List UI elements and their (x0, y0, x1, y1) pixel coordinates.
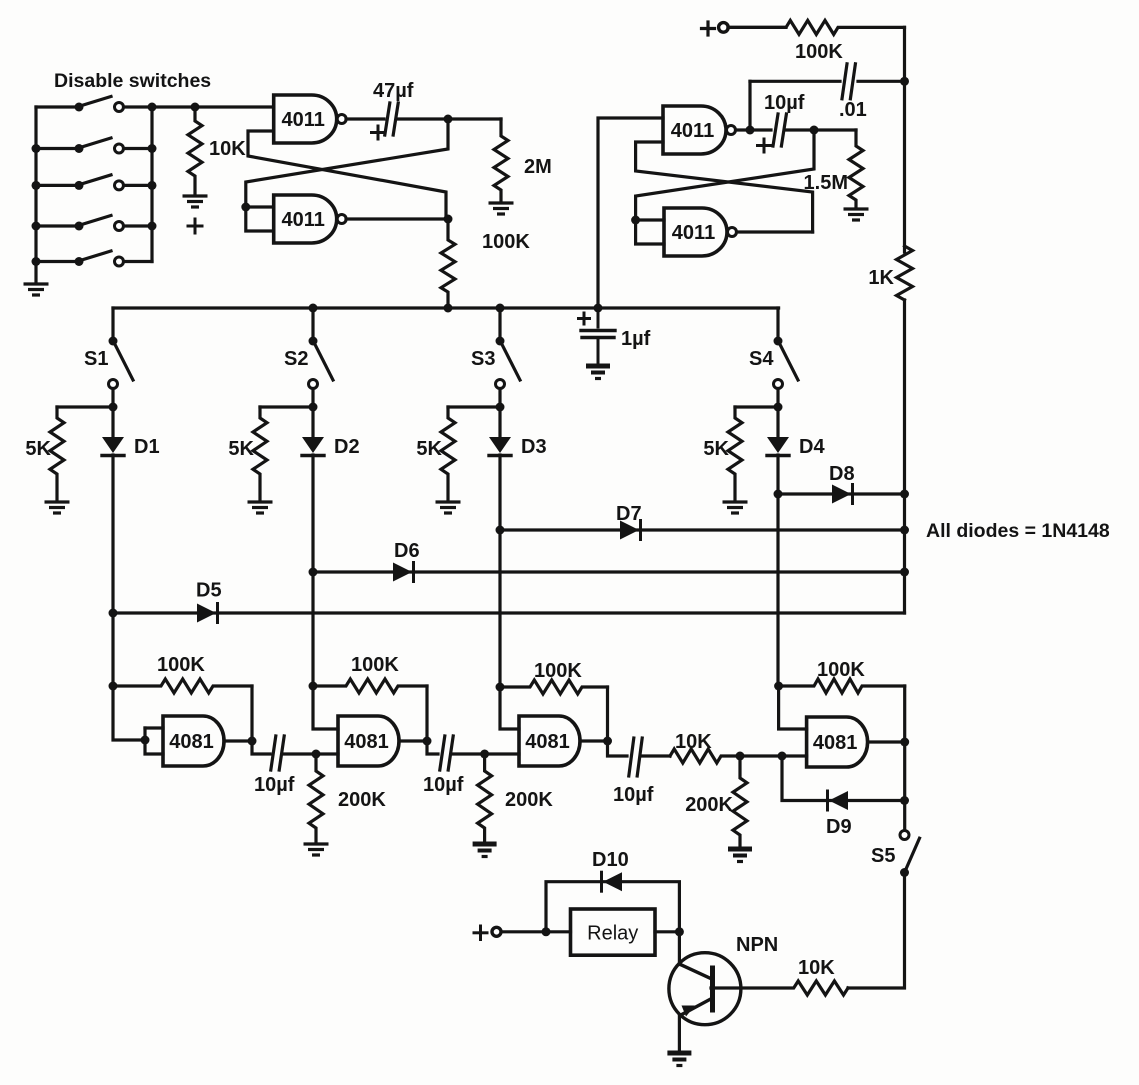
resistor 5K of S2 (228, 407, 267, 501)
svg-text:100K: 100K (795, 41, 843, 63)
ground below 5K of S2 (248, 502, 273, 513)
wire S4 corner into gate4 (779, 686, 807, 729)
resistor 100K (latch to bus) (441, 219, 530, 308)
wire right rail of disable switches (150, 107, 153, 262)
wire cap1 to junction (283, 752, 316, 755)
wire cap1 node to gate2 (316, 752, 338, 755)
wire relay right (655, 930, 679, 933)
diode D6 (393, 563, 414, 582)
svg-text:D1: D1 (134, 436, 160, 458)
junction bus at latch 100K (444, 304, 453, 313)
junction relay right node (675, 927, 684, 936)
svg-text:S2: S2 (284, 348, 308, 370)
resistor 5K of S4 (703, 407, 742, 501)
svg-text:4081: 4081 (344, 731, 389, 753)
resistor 1K (rail) (868, 246, 912, 300)
capacitor 10uf (osc) (773, 114, 786, 146)
svg-text:D8: D8 (829, 463, 855, 485)
junction bus at S2 (309, 304, 318, 313)
switch S4 arm (780, 344, 799, 381)
junction gate2 100K tap (309, 682, 318, 691)
wire S3 column to gate3 tap (498, 530, 501, 687)
label D3 (521, 436, 547, 458)
junction bus at S3 (496, 304, 505, 313)
junction left rail row 5 (32, 257, 41, 266)
junction D7 at rail (900, 526, 909, 535)
wire collector (678, 932, 681, 965)
junction left rail row 4 (32, 222, 41, 231)
wire terminal to relay (501, 930, 546, 933)
disable switch 2 (36, 138, 152, 153)
ground below 1.5M (844, 209, 869, 220)
resistor 200K #1 (309, 754, 386, 842)
label S5 (871, 845, 895, 867)
junction U2 output node (444, 215, 453, 224)
wire gate1 output (224, 739, 252, 742)
label D7 (616, 503, 642, 525)
wire cross-couple U4out to U3in (636, 142, 813, 232)
svg-text:4011: 4011 (671, 120, 714, 142)
ground below 200K #3 (728, 849, 752, 862)
svg-text:200K: 200K (505, 789, 553, 811)
wire D9 branch (782, 756, 905, 801)
wire cap to junction (397, 117, 448, 120)
capacitor 47uf (385, 103, 398, 135)
wire gate2 out drop (427, 741, 438, 754)
resistor 200K #2 (478, 754, 554, 842)
svg-text:10µf: 10µf (423, 774, 464, 796)
nand gate U4 4011 bottom-right (664, 208, 737, 256)
and gate 4081 #3 (519, 716, 580, 766)
resistor 5K of S3 (416, 407, 455, 501)
resistor 100K (fb2) (313, 654, 427, 693)
label 10uf osc (764, 92, 805, 114)
wire cap2 node to gate3 (485, 752, 519, 755)
switch S1 pivot dot (109, 337, 118, 346)
wire U4 output (737, 230, 813, 233)
switch S5 contact circle (900, 831, 909, 840)
wire top right corner down rail (903, 27, 906, 252)
diode D1 (102, 437, 124, 456)
svg-text:4081: 4081 (169, 731, 214, 753)
svg-text:S4: S4 (749, 348, 774, 370)
junction D6 at S2 (309, 568, 318, 577)
svg-text:1K: 1K (868, 267, 894, 289)
switch S2 contact circle (309, 380, 318, 389)
wire cross-couple U1out to U2in (246, 119, 448, 207)
label D4 (799, 436, 825, 458)
ground below 2M (489, 203, 514, 214)
label D6 (394, 540, 420, 562)
resistor 100K (supply) (728, 20, 905, 63)
diode D7 (620, 521, 641, 540)
svg-text:D3: D3 (521, 436, 547, 458)
svg-text:5K: 5K (25, 438, 51, 460)
junction relay left node (542, 927, 551, 936)
junction left rail row 3 (32, 181, 41, 190)
resistor 100K (fb1) (113, 654, 252, 693)
wire U3 output (736, 128, 772, 131)
transistor NPN Q1 (669, 953, 741, 1025)
wire S1 column to D5 row (111, 455, 114, 613)
wire cross-couple U2out to U1in (248, 131, 446, 219)
svg-text:47µf: 47µf (373, 80, 414, 102)
junction right rail row 3 (148, 181, 157, 190)
svg-text:100K: 100K (534, 660, 582, 682)
ground below disable switches (24, 284, 49, 295)
and gate 4081 #2 (338, 716, 399, 766)
junction left rail row 2 (32, 144, 41, 153)
junction gate3 output node (603, 737, 612, 746)
wire terminal to 100K (728, 26, 786, 29)
wire U2 input bracket (246, 207, 274, 231)
switch S4 contact circle (774, 380, 783, 389)
wire U2 output (346, 217, 448, 220)
junction U1 output node (444, 115, 453, 124)
terminal circle top right (719, 23, 729, 33)
ground below 200K #2 (473, 844, 497, 857)
switch S3 arm (502, 344, 521, 381)
svg-text:.01: .01 (839, 99, 867, 121)
terminal circle relay supply (492, 927, 501, 936)
junction U2 input tie (241, 203, 250, 212)
svg-text:S1: S1 (84, 348, 108, 370)
svg-text:5K: 5K (228, 438, 254, 460)
label all diodes (926, 520, 1110, 542)
junction gate1 input tie (141, 736, 150, 745)
resistor 10K (base) (711, 957, 848, 995)
wire S5 down and left (848, 873, 905, 989)
wire 200K node to D9 node (740, 754, 782, 757)
wire S2 column to gate2 tap (311, 572, 314, 686)
relay box (571, 909, 656, 955)
wire S4 below contact (776, 389, 779, 439)
capacitor 1uf (581, 308, 615, 364)
label D1 (134, 436, 160, 458)
wire gate3 output (580, 739, 608, 742)
wire D10 loop (546, 882, 679, 932)
junction right rail row 4 (148, 222, 157, 231)
label 47uf (373, 80, 414, 102)
svg-text:200K: 200K (338, 789, 386, 811)
diode D4 (767, 437, 789, 456)
label S2 (284, 348, 308, 370)
junction cap1 200K node (312, 750, 321, 759)
switch S2 arm (315, 344, 334, 381)
svg-text:10K: 10K (209, 138, 246, 160)
junction S2 5K tap (309, 403, 318, 412)
junction rail at .01 cap (900, 77, 909, 86)
svg-text:4081: 4081 (813, 732, 858, 754)
label D8 (829, 463, 855, 485)
switch S1 contact circle (109, 380, 118, 389)
label S1 (84, 348, 108, 370)
svg-text:S5: S5 (871, 845, 895, 867)
junction 10K 200K node (736, 752, 745, 761)
resistor 2M (494, 119, 552, 201)
wire left rail of disable switches (34, 107, 37, 282)
resistor 100K (fb4) (779, 659, 905, 693)
junction U4 input tie (631, 216, 640, 225)
wire .01 cap row (750, 80, 905, 83)
switch S4 pivot dot (774, 337, 783, 346)
wire S2 column top (311, 308, 314, 341)
wire fb1 corner down (250, 686, 253, 741)
wire gate3 out drop (608, 741, 628, 756)
svg-text:10µf: 10µf (764, 92, 805, 114)
junction right rail row 1 (148, 103, 157, 112)
wire S3 to 5K (448, 405, 500, 408)
svg-text:10µf: 10µf (613, 784, 654, 806)
wire U1 output (346, 117, 384, 120)
wire gate2 output (399, 739, 427, 742)
wire switches to gate U1 input (152, 105, 274, 108)
diode D5 (197, 604, 218, 623)
wire S3 below contact (498, 389, 501, 439)
resistor 10K (pull-down) (188, 107, 246, 194)
label D9 (826, 816, 852, 838)
wire fb2 corner down (425, 686, 428, 741)
svg-text:10K: 10K (798, 957, 835, 979)
wire S3 corner into gate3 (500, 687, 519, 729)
resistor 100K (fb3) (500, 660, 608, 694)
junction D7 at S3 (496, 526, 505, 535)
svg-text:All diodes = 1N4148: All diodes = 1N4148 (926, 520, 1110, 542)
disable switch 1 (36, 97, 152, 112)
nand gate U1 4011 top-left (274, 95, 347, 143)
diode D9 (828, 791, 849, 810)
junction gate3 100K tap (496, 683, 505, 692)
label + of 10uf osc (758, 139, 771, 152)
wire D5 row (113, 611, 905, 614)
wire S4 to 5K (735, 405, 778, 408)
ground below NPN (667, 1053, 691, 1066)
svg-text:D9: D9 (826, 816, 852, 838)
wire D9 node to gate4 (782, 754, 807, 757)
diode D10 (602, 872, 623, 891)
wire gate4 output (868, 740, 905, 743)
label S4 (749, 348, 774, 370)
wire S1 column top (111, 308, 114, 341)
label NPN (736, 934, 778, 956)
svg-text:1µf: 1µf (621, 328, 651, 350)
wire S2 column to D6 row (311, 455, 314, 572)
wire D6 row (313, 570, 905, 573)
switch S5 pivot dot (900, 868, 909, 877)
ground below 1uf (586, 366, 610, 379)
wire S4 column to D8 row (776, 455, 779, 494)
ground below 10K (183, 196, 208, 207)
nand gate U2 4011 bottom-left (274, 195, 347, 243)
svg-text:100K: 100K (482, 231, 530, 253)
label + supply top right (702, 22, 715, 35)
junction osc node (810, 126, 819, 135)
wire .01 to U3 output node (748, 81, 751, 129)
junction D9 at rail (900, 796, 909, 805)
switch S3 pivot dot (496, 337, 505, 346)
wire cap3 to 10K (642, 754, 670, 757)
disable switch 4 (36, 216, 152, 231)
svg-text:D6: D6 (394, 540, 420, 562)
capacitor 10uf #1 (271, 736, 284, 770)
wire S1 column to gate1 (113, 613, 145, 740)
wire fb3 corner down (606, 687, 609, 741)
ground below 5K of S4 (723, 502, 748, 513)
label + of 1uf (579, 313, 590, 324)
junction U3 output node at cap tap (746, 126, 755, 135)
ground below 5K of S1 (45, 502, 70, 513)
wire S2 below contact (311, 389, 314, 439)
and gate 4081 #4 (807, 717, 868, 767)
junction D8 at rail (900, 490, 909, 499)
diode D2 (302, 437, 324, 456)
wire D7 row (500, 528, 905, 531)
wire S2 corner into gate2 (313, 686, 338, 729)
wire cap to junction (785, 128, 814, 131)
switch S3 contact circle (496, 380, 505, 389)
wire S3 column to D7 row (498, 455, 501, 530)
switch S5 arm (906, 838, 920, 869)
label D5 (196, 580, 222, 602)
label 10uf #2 (423, 774, 464, 796)
wire S1 below contact (111, 389, 114, 439)
wire S4 column top (776, 308, 779, 341)
junction gate1 100K tap (109, 682, 118, 691)
label 1uf (621, 328, 651, 350)
svg-text:4011: 4011 (672, 222, 715, 244)
wire gate1 input bracket (145, 728, 163, 754)
wire junction to 2M (448, 117, 501, 120)
junction right rail row 2 (148, 144, 157, 153)
wire cross-couple U3out to U4in (636, 130, 814, 220)
switch S2 pivot dot (309, 337, 318, 346)
label D2 (334, 436, 360, 458)
svg-text:2M: 2M (524, 156, 552, 178)
svg-text:Relay: Relay (587, 923, 638, 945)
svg-text:5K: 5K (416, 438, 442, 460)
label + relay supply (474, 926, 487, 940)
svg-text:D4: D4 (799, 436, 825, 458)
capacitor 10uf #3 (629, 738, 642, 776)
svg-text:4081: 4081 (525, 731, 570, 753)
svg-text:D7: D7 (616, 503, 642, 525)
wire S1 to 5K (57, 405, 113, 408)
junction D5 at S1 (109, 609, 118, 618)
svg-text:10µf: 10µf (254, 774, 295, 796)
switch S1 arm (115, 344, 134, 381)
wire bus A horizontal (113, 306, 779, 309)
diode D8 (832, 485, 853, 504)
svg-text:NPN: NPN (736, 934, 778, 956)
svg-text:100K: 100K (817, 659, 865, 681)
resistor 5K of S1 (25, 407, 64, 501)
wire fb4 corner down rail (903, 686, 906, 831)
svg-text:4011: 4011 (282, 109, 325, 131)
junction D6 at rail (900, 568, 909, 577)
label "Disable switches" (54, 70, 211, 92)
junction gate2 output node (423, 737, 432, 746)
wire emitter down (678, 1015, 681, 1051)
svg-text:200K: 200K (685, 794, 733, 816)
junction D9 branch node (778, 752, 787, 761)
junction gate4 output node (900, 738, 909, 747)
wire S3 column top (498, 308, 501, 341)
label 10uf #1 (254, 774, 295, 796)
junction 10K tap (191, 103, 200, 112)
svg-text:100K: 100K (157, 654, 205, 676)
diode D3 (489, 437, 511, 456)
svg-text:Disable switches: Disable switches (54, 70, 211, 92)
resistor 1.5M (804, 130, 863, 208)
junction D8 at S4 (774, 490, 783, 499)
nand gate U3 4011 top-right (663, 106, 736, 154)
svg-text:10K: 10K (675, 731, 712, 753)
junction cap2 200K node (480, 750, 489, 759)
wire relay left (546, 930, 571, 933)
junction bus at 1uf (594, 304, 603, 313)
wire U4 input bracket (636, 220, 664, 244)
label D10 (592, 849, 629, 871)
disable switch 3 (36, 175, 152, 190)
svg-text:4011: 4011 (282, 209, 325, 231)
and gate 4081 #1 (163, 716, 224, 766)
junction S4 5K tap (774, 403, 783, 412)
wire rail 1K to D5 row (903, 300, 906, 613)
junction S3 5K tap (496, 403, 505, 412)
label 10uf #3 (613, 784, 654, 806)
svg-text:D2: D2 (334, 436, 360, 458)
capacitor .01 (842, 64, 855, 99)
ground below 200K #1 (304, 844, 329, 855)
wire junction to 1.5M (814, 128, 856, 131)
wire D8 row (778, 492, 905, 495)
resistor 200K #3 (685, 756, 747, 847)
wire U3 input from bus (598, 118, 663, 306)
wire S2 to 5K (260, 405, 313, 408)
junction S1 5K tap (109, 403, 118, 412)
svg-text:5K: 5K (703, 438, 729, 460)
wire gate1 out drop (252, 741, 270, 754)
label S3 (471, 348, 495, 370)
resistor 10K (mid) (670, 731, 740, 763)
junction gate4 100K tap (774, 682, 783, 691)
label + below 10K ground (188, 219, 202, 233)
svg-text:D5: D5 (196, 580, 222, 602)
wire S4 column D8 to D7 row (776, 494, 779, 686)
junction gate1 output node (248, 737, 257, 746)
capacitor 10uf #2 (440, 736, 453, 770)
label + of 47uf (372, 126, 385, 139)
svg-text:S3: S3 (471, 348, 495, 370)
ground below 5K of S3 (436, 502, 461, 513)
svg-text:D10: D10 (592, 849, 629, 871)
svg-text:100K: 100K (351, 654, 399, 676)
wire cap2 to junction (452, 752, 485, 755)
disable switch 5 (36, 251, 152, 266)
label .01 (839, 99, 867, 121)
